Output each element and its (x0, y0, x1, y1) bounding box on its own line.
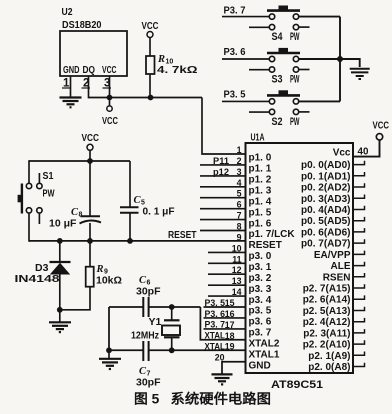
svg-text:VCC: VCC (142, 20, 159, 32)
svg-text:p2. 4(A12): p2. 4(A12) (303, 317, 351, 328)
svg-text:p3. 4: p3. 4 (249, 295, 272, 306)
svg-text:P3. 7: P3. 7 (205, 320, 226, 330)
ground under crystal rail (99, 359, 121, 369)
svg-text:p1. 0: p1. 0 (249, 153, 272, 164)
wire U1A pin20 GND (222, 362, 246, 374)
wire rail to D3 (59, 241, 61, 262)
svg-text:PW: PW (43, 188, 55, 200)
svg-text:p1. 4: p1. 4 (249, 196, 272, 207)
switch S4 (249, 6, 310, 44)
svg-text:AT89C51: AT89C51 (271, 379, 323, 391)
node P3.7 stub pin 17 (204, 320, 246, 330)
wire S3 to right bus (299, 58, 340, 60)
svg-text:DS18B20: DS18B20 (62, 19, 102, 31)
svg-text:p0. 6(AD6): p0. 6(AD6) (301, 227, 350, 238)
svg-text:p0. 4(AD4): p0. 4(AD4) (301, 205, 350, 216)
svg-text:p1. 5: p1. 5 (249, 207, 272, 218)
svg-text:XTAL: XTAL (205, 331, 226, 341)
svg-text:ALE: ALE (331, 261, 351, 272)
VCC symbol above R10 (142, 20, 159, 38)
capacitor C6 (136, 275, 161, 317)
svg-text:p3. 5: p3. 5 (249, 306, 272, 317)
capacitor C7 (136, 341, 161, 389)
svg-text:p1. 7/LCK: p1. 7/LCK (249, 229, 296, 240)
svg-text:S4: S4 (272, 31, 284, 43)
pin 1 of U2 (62, 78, 71, 90)
svg-text:1: 1 (237, 145, 242, 155)
chip U1A AT89C51 (246, 132, 354, 392)
wire crystal bottom rail left of C7 (109, 349, 143, 351)
svg-text:p0. 3(AD3): p0. 3(AD3) (301, 194, 350, 205)
resistor R9 (86, 264, 122, 287)
svg-text:p1. 1: p1. 1 (249, 164, 272, 175)
wire VCC to top rail (89, 150, 91, 161)
svg-text:p2. 1(A9): p2. 1(A9) (308, 351, 350, 362)
svg-text:GND: GND (249, 360, 271, 371)
svg-text:XTAL2: XTAL2 (249, 339, 280, 350)
wire U2 pin3 down (109, 76, 111, 106)
svg-text:p0. 7(AD7): p0. 7(AD7) (301, 239, 350, 250)
wire crystal top rail right of C6 (149, 306, 200, 308)
svg-text:12MHz: 12MHz (131, 330, 159, 342)
wire C5 branch upper (129, 161, 131, 207)
svg-text:PW: PW (290, 73, 300, 85)
svg-text:GND: GND (63, 65, 80, 76)
wire P3.7 to S4 (222, 16, 269, 18)
svg-text:VCC: VCC (82, 132, 100, 144)
junction C5 / bottom rail (127, 238, 133, 244)
svg-text:p2. 2(A10): p2. 2(A10) (303, 340, 351, 351)
wire S1 to bottom rail (28, 213, 30, 242)
svg-text:p3. 7: p3. 7 (249, 328, 272, 339)
wire C8 branch upper (89, 161, 91, 216)
U1A right pin labels (301, 148, 351, 374)
svg-text:RESET: RESET (249, 240, 282, 251)
svg-text:DQ: DQ (83, 65, 96, 76)
svg-text:Y1: Y1 (149, 316, 162, 328)
wire S4 to right bus (299, 16, 340, 18)
svg-text:18: 18 (225, 331, 235, 341)
wire bus to ground (340, 59, 360, 67)
wire reset bottom rail to U1A pin9 (29, 240, 246, 242)
junction crystal bottom (169, 347, 175, 353)
svg-text:IN4148: IN4148 (15, 273, 60, 285)
wire C5 to bottom rail (129, 213, 131, 241)
svg-text:P3. 6: P3. 6 (224, 46, 246, 58)
crystal Y1 12MHz (131, 307, 180, 350)
capacitor C8 (49, 207, 101, 230)
wire D3 to ground node (59, 274, 61, 310)
chip U2 DS18B20 (60, 6, 127, 76)
svg-text:p0. 2(AD2): p0. 2(AD2) (301, 183, 350, 194)
switch S3 (249, 48, 310, 86)
svg-text:U2: U2 (62, 6, 73, 18)
junction R10 / DQ line (148, 95, 154, 101)
svg-text:P3. 7: P3. 7 (224, 5, 246, 17)
svg-text:8: 8 (79, 212, 83, 219)
wire VCC to R10 (149, 38, 151, 57)
ground under U1A pin20 (212, 374, 233, 384)
svg-text:p3. 6: p3. 6 (249, 317, 272, 328)
wire U2 pin2 DQ down and right (89, 76, 203, 98)
wire crystal left rail (108, 307, 110, 350)
svg-text:VCC: VCC (102, 115, 118, 127)
svg-text:p2. 0(A8): p2. 0(A8) (308, 362, 350, 373)
junction bus / S3 wire (337, 56, 343, 62)
capacitor C5 (120, 195, 175, 218)
svg-text:VCC: VCC (373, 120, 390, 132)
junction C8 / bottom rail (87, 238, 93, 244)
wire crystal bottom rail to U1A pin19 (149, 349, 245, 351)
diode D3 (15, 262, 71, 285)
svg-text:p3. 3: p3. 3 (249, 284, 272, 295)
svg-text:S1: S1 (43, 170, 54, 182)
svg-text:p2. 6(A14): p2. 6(A14) (303, 295, 351, 306)
wire P3.6 to S3 (222, 58, 269, 60)
svg-text:p3. 2: p3. 2 (249, 273, 272, 284)
svg-text:30pF: 30pF (136, 377, 161, 389)
svg-text:PW: PW (290, 31, 300, 43)
svg-text:PW: PW (290, 116, 300, 128)
svg-text:RESET: RESET (168, 230, 197, 241)
svg-text:VCC: VCC (102, 65, 117, 76)
svg-text:P3. 6: P3. 6 (205, 309, 226, 319)
VCC symbol above reset circuit (82, 132, 100, 150)
U1A left stub wires (200, 165, 246, 296)
svg-text:p2. 7(A15): p2. 7(A15) (303, 284, 351, 295)
wire rail to R9 (89, 241, 91, 267)
svg-text:P3. 5: P3. 5 (205, 298, 226, 308)
svg-text:S2: S2 (272, 116, 283, 128)
svg-text:10kΩ: 10kΩ (96, 275, 122, 287)
node P3.5 stub pin 15 (204, 298, 246, 308)
VCC symbol right (373, 120, 390, 141)
svg-text:系统硬件电路图: 系统硬件电路图 (171, 391, 272, 407)
pin 40 Vcc wire (353, 140, 380, 157)
pin 3 of U2 (103, 78, 112, 90)
node P3.6 stub pin 16 (204, 309, 246, 319)
U1A left pin numbers (215, 145, 242, 363)
svg-text:p2. 3(A11): p2. 3(A11) (303, 328, 350, 339)
wire left rail to ground (108, 350, 110, 358)
svg-text:0. 1 μF: 0. 1 μF (143, 206, 176, 218)
wire node to ground (59, 310, 61, 322)
U1A left pin labels (249, 153, 296, 372)
VCC symbol below U2 pin3 (102, 106, 118, 127)
switch S1 (18, 170, 55, 224)
svg-text:9: 9 (237, 232, 242, 242)
junction left rail bottom (106, 347, 112, 353)
junction U2 pin3 / DQ line (107, 95, 113, 101)
junction VCC / top rail (87, 158, 93, 164)
wire R10 to DQ line (149, 74, 151, 98)
svg-text:EA/VPP: EA/VPP (314, 250, 351, 261)
svg-text:p2. 5(A13): p2. 5(A13) (303, 306, 351, 317)
svg-text:4. 7kΩ: 4. 7kΩ (157, 64, 198, 76)
wire crystal top rail left of C6 (109, 306, 143, 308)
wire XTAL2 riser to U1A pin18 (200, 307, 245, 340)
svg-text:p0. 5(AD5): p0. 5(AD5) (301, 216, 350, 227)
svg-text:30pF: 30pF (136, 286, 161, 298)
ground under D3 (49, 322, 71, 332)
ground right of switches (350, 69, 370, 79)
svg-text:XTAL1: XTAL1 (249, 349, 280, 360)
U1A right stub wires (353, 161, 365, 367)
svg-text:p3. 0: p3. 0 (249, 251, 272, 262)
wire R9 down and left to ground node (60, 287, 90, 310)
svg-text:p1. 3: p1. 3 (249, 186, 272, 197)
svg-text:P3. 5: P3. 5 (224, 88, 246, 100)
svg-text:Vcc: Vcc (333, 148, 351, 159)
svg-text:p1. 6: p1. 6 (249, 218, 272, 229)
wire top rail to S1 (28, 160, 30, 183)
wire right bus vertical (339, 17, 341, 102)
svg-text:U1A: U1A (251, 132, 265, 144)
svg-text:图 5: 图 5 (134, 392, 160, 407)
resistor R10 (146, 54, 198, 76)
svg-text:p0. 0(AD0): p0. 0(AD0) (301, 160, 350, 171)
switch S2 (249, 90, 310, 128)
svg-text:RSEN: RSEN (323, 272, 351, 283)
svg-text:R: R (96, 264, 104, 275)
wire U2 pin1 to ground (70, 76, 72, 97)
wire C8 to bottom rail (89, 223, 91, 241)
svg-text:p1. 2: p1. 2 (249, 175, 272, 186)
svg-text:p3. 1: p3. 1 (249, 262, 272, 273)
junction D3 / bottom rail (57, 238, 63, 244)
svg-text:10 μF: 10 μF (49, 218, 77, 230)
wire P3.5 to S2 (222, 100, 269, 102)
wire S2 to right bus (299, 100, 340, 102)
pin 2 of U2 (82, 78, 91, 90)
junction crystal top (169, 304, 175, 310)
wire reset top rail (29, 160, 130, 162)
junction D3/R9 ground node (57, 307, 63, 313)
svg-text:S3: S3 (272, 73, 283, 85)
ground under U2 pin1 (60, 98, 82, 108)
svg-text:p0. 1(AD1): p0. 1(AD1) (301, 171, 350, 182)
svg-text:XTAL: XTAL (205, 342, 226, 352)
wire DQ line to U1A pin1 (202, 98, 246, 155)
svg-text:19: 19 (225, 342, 235, 352)
